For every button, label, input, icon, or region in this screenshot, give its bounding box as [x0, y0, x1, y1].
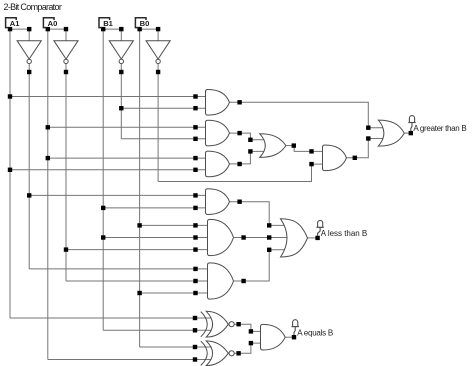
svg-text:B0: B0 [140, 19, 150, 28]
svg-text:A less than B: A less than B [321, 229, 367, 238]
svg-text:2-Bit Comparator: 2-Bit Comparator [4, 2, 62, 12]
svg-text:B1: B1 [103, 19, 113, 28]
svg-text:A equals B: A equals B [297, 329, 333, 338]
svg-text:A1: A1 [10, 19, 20, 28]
svg-text:A greater than B: A greater than B [413, 124, 466, 133]
svg-text:A0: A0 [48, 19, 58, 28]
